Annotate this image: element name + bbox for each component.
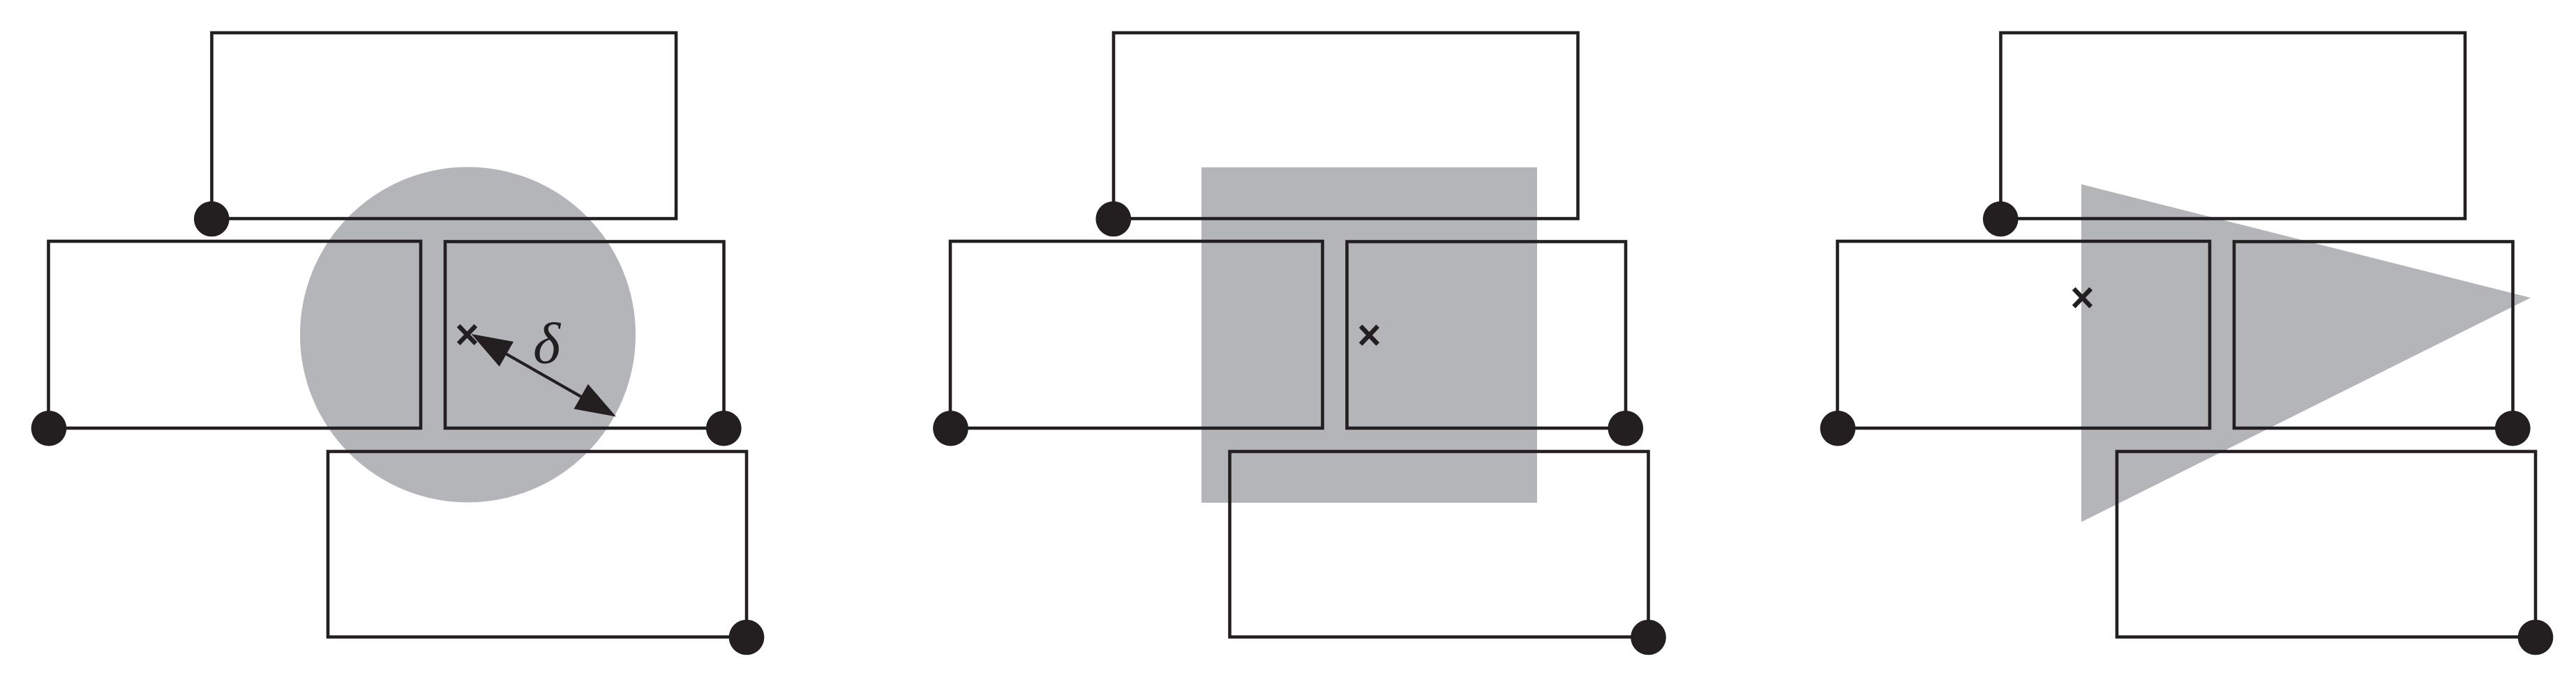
panel 3 cross mark (query point) [2074,289,2091,307]
panel 2 middle-right rectangle [1347,242,1626,429]
panel 1 top rectangle [212,33,677,219]
panel 2 middle-left rectangle [950,241,1323,428]
panel 2 cross mark (query point) [1361,326,1378,344]
panel 3 vertex dot top [1983,202,2019,237]
panel 1 vertex dot bottom [729,620,765,655]
panel 3 middle-right rectangle [2234,242,2513,429]
panel 2 top rectangle [1114,33,1578,219]
panel 3 vertex dot bottom [2518,620,2554,655]
panel 1 vertex dot left [31,411,67,446]
panel 2 vertex dot left [933,411,968,446]
panel 1 cross mark (query point) [458,326,476,344]
panel 1 middle-right rectangle [445,242,724,429]
panel 3 vertex dot left [1820,411,1856,446]
panel 3 vertex dot right [2495,411,2531,446]
panel 3 gray triangle (cone region) [2081,184,2531,522]
panel 2 vertex dot top [1096,202,1132,237]
panel 3 middle-left rectangle [1838,241,2210,428]
panel 2 vertex dot bottom [1631,620,1666,655]
panel 1 vertex dot right [706,411,742,446]
panel 1 vertex dot top [194,202,230,237]
panel 1 double-headed arrow (radius) [472,334,617,417]
panel 3 top rectangle [2001,33,2466,219]
panel 2 vertex dot right [1608,411,1644,446]
svg-text:δ: δ [533,312,562,377]
panel 1 gray disk (region of radius delta) [300,167,636,503]
panel 2 bottom rectangle [1230,452,1649,637]
panel 1 middle-left rectangle [49,241,421,428]
panel 2 gray square (L-infinity ball) [1201,167,1537,503]
panel 1 bottom rectangle [328,452,747,637]
panel 3 bottom rectangle [2117,452,2536,637]
